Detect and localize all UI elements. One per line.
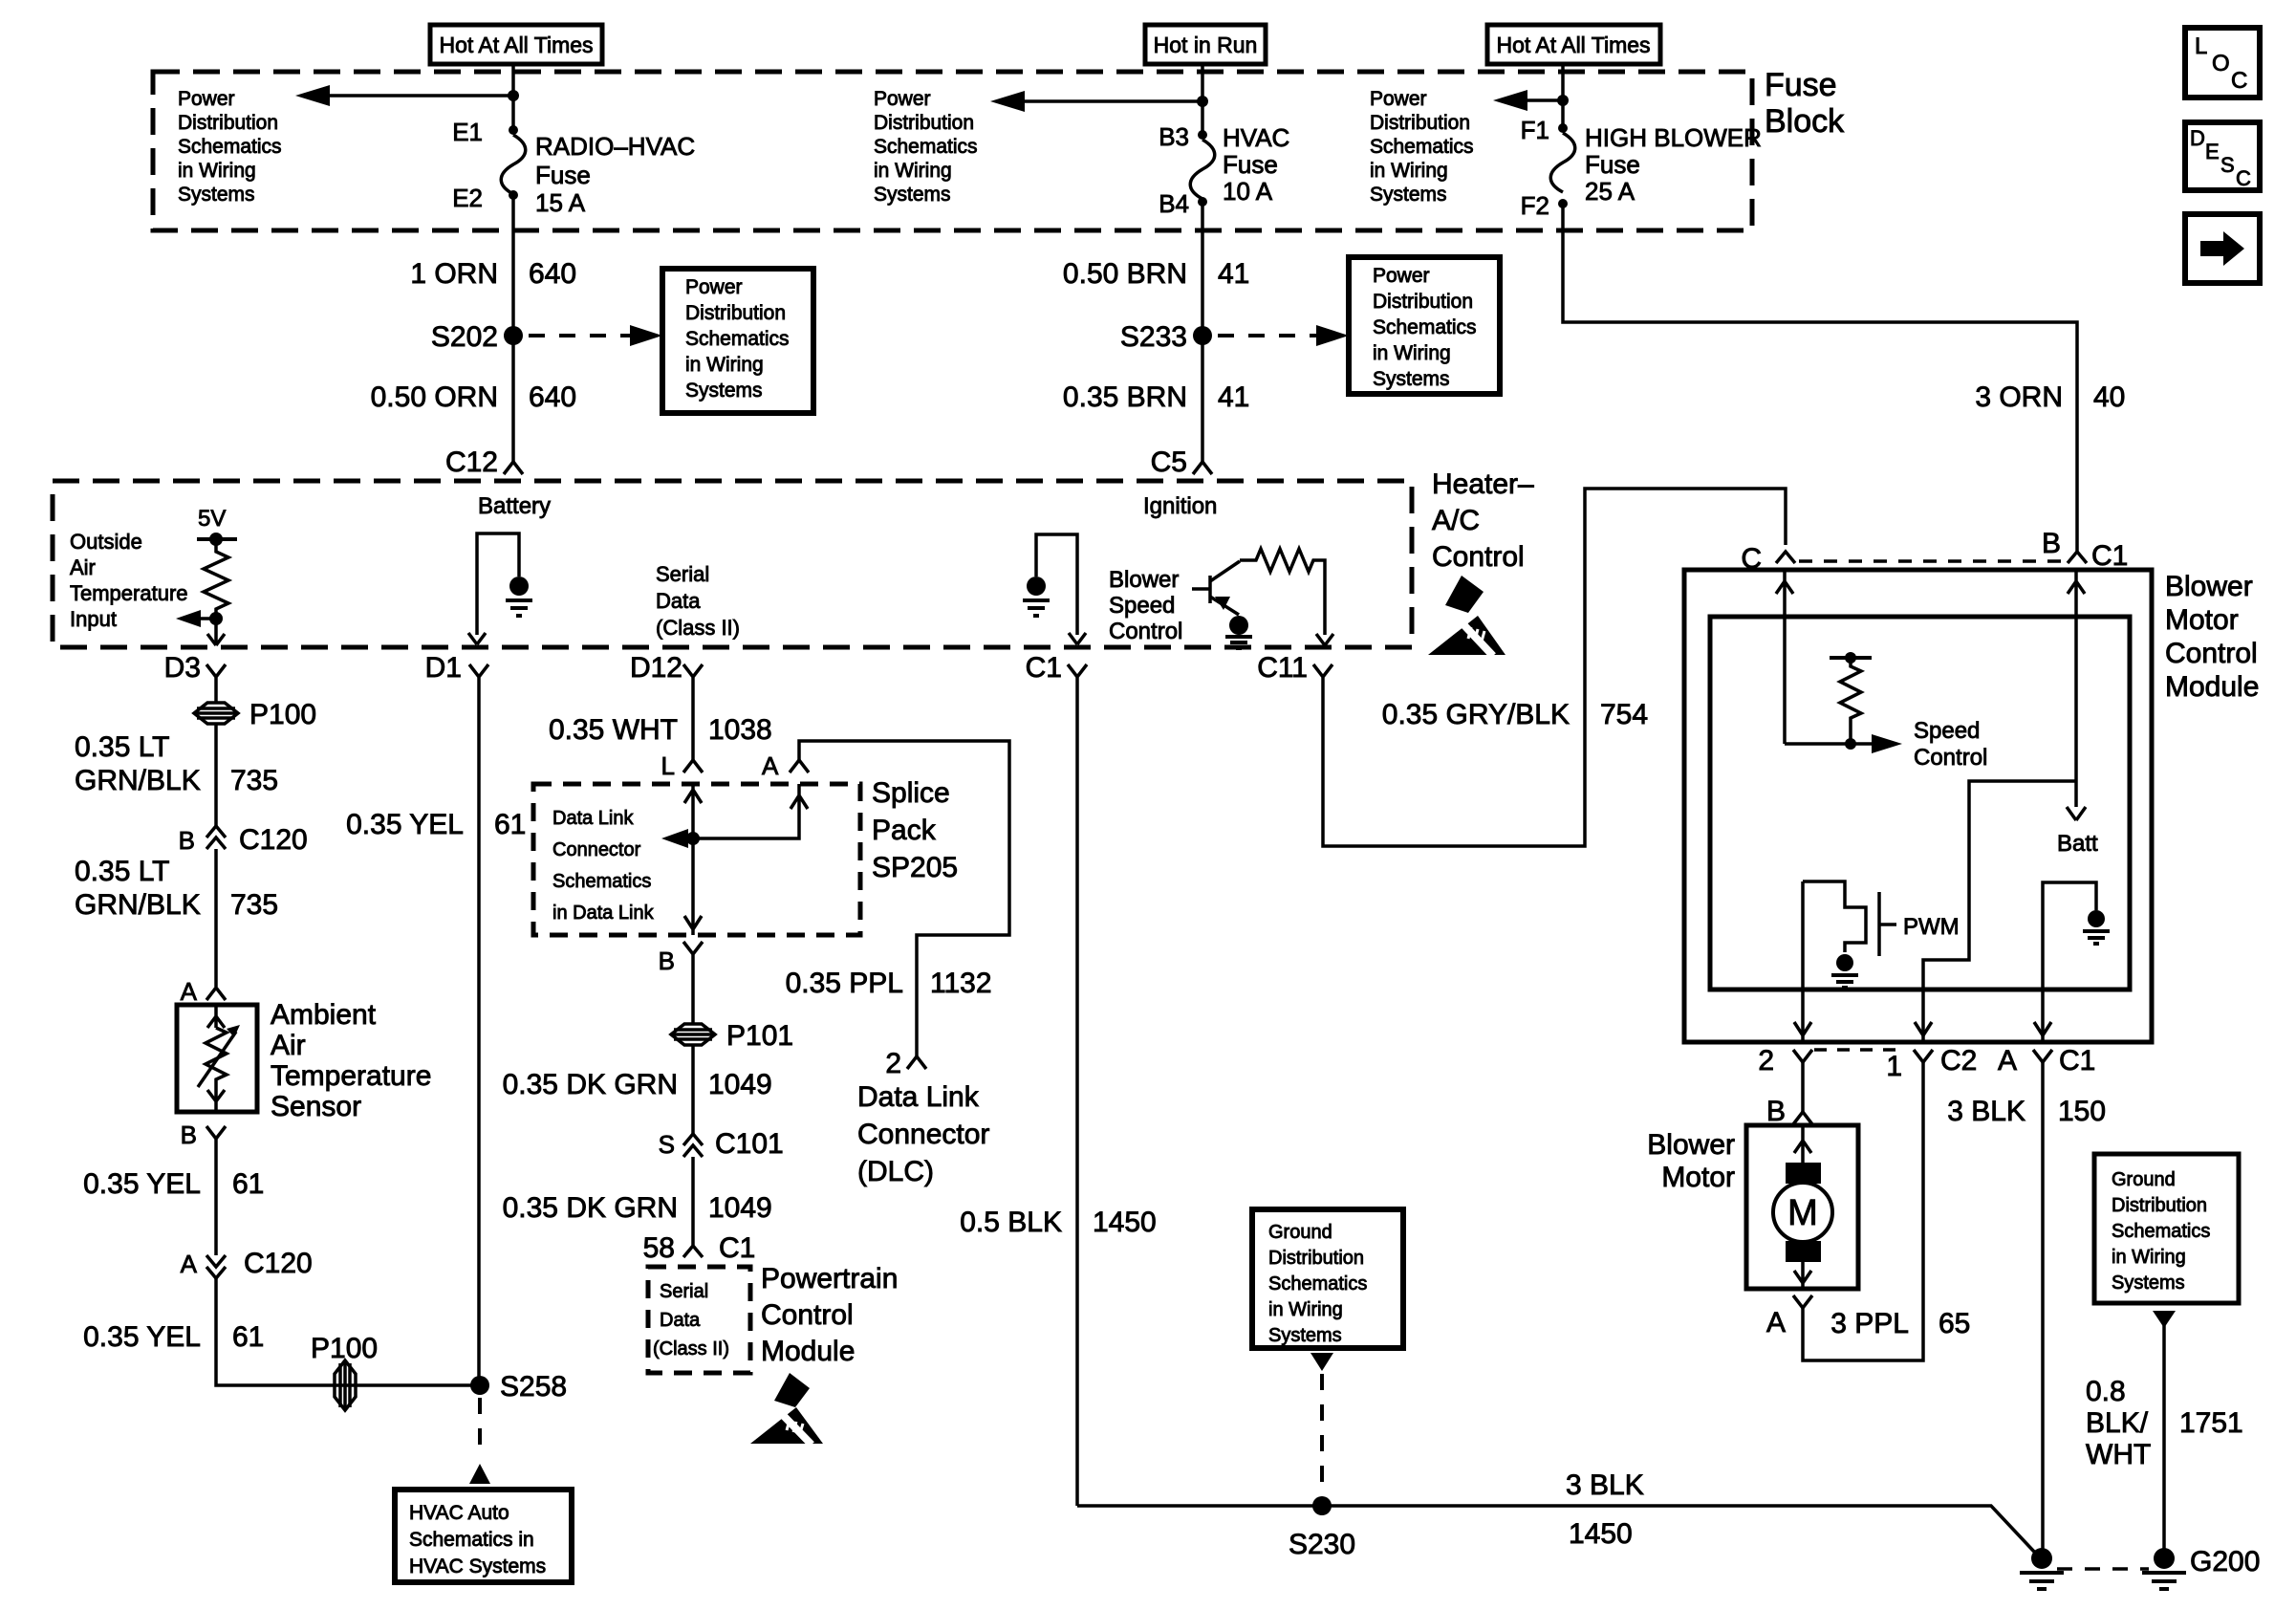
pcm serial data dashed box — [648, 1267, 750, 1373]
svg-text:61: 61 — [232, 1321, 264, 1353]
svg-text:Pack: Pack — [872, 815, 937, 846]
svg-text:Distribution: Distribution — [1373, 291, 1473, 313]
svg-text:in Wiring: in Wiring — [874, 160, 952, 182]
svg-text:Serial: Serial — [660, 1281, 708, 1302]
svg-text:Schematics: Schematics — [685, 328, 790, 350]
svg-text:Fuse: Fuse — [1765, 67, 1837, 103]
svg-text:M: M — [1787, 1193, 1818, 1233]
grommet P101 — [671, 1020, 793, 1052]
svg-text:B: B — [181, 1120, 197, 1149]
ground (transistor emitter) — [1229, 616, 1248, 635]
svg-text:0.35 LT: 0.35 LT — [75, 856, 170, 887]
fuse HIGH BLOWER 25A — [1550, 133, 1575, 192]
note box power distribution (S202) — [662, 269, 813, 413]
svg-text:754: 754 — [1600, 699, 1648, 730]
svg-text:Air: Air — [70, 555, 96, 579]
svg-text:B: B — [179, 826, 195, 855]
splice S202 — [504, 326, 523, 345]
svg-text:Power: Power — [1370, 88, 1427, 110]
svg-text:B: B — [2042, 528, 2061, 559]
svg-text:Blower: Blower — [1109, 567, 1179, 593]
wire pin A line with internal ground — [2043, 882, 2096, 1042]
note box ground distribution (S230) — [1252, 1209, 1403, 1348]
label box Hot At All Times (right) — [1487, 25, 1660, 64]
svg-text:C1: C1 — [1026, 652, 1062, 684]
svg-text:Connector: Connector — [857, 1119, 989, 1150]
svg-text:640: 640 — [529, 381, 576, 413]
svg-text:Fuse: Fuse — [1585, 150, 1640, 179]
svg-text:Power: Power — [1373, 265, 1430, 287]
arrow temp input (left) — [196, 617, 216, 620]
svg-text:41: 41 — [1218, 381, 1249, 413]
fuse HIGH BLOWER terminal F1 — [1558, 123, 1568, 133]
svg-text:Data Link: Data Link — [857, 1081, 980, 1113]
fuse RADIO-HVAC 15A — [501, 135, 526, 194]
svg-text:SP205: SP205 — [872, 852, 958, 883]
svg-text:25 A: 25 A — [1585, 177, 1635, 206]
svg-text:in Wiring: in Wiring — [1268, 1299, 1343, 1320]
svg-text:(Class II): (Class II) — [656, 616, 740, 640]
svg-text:735: 735 — [230, 765, 278, 796]
svg-text:Schematics: Schematics — [1268, 1273, 1367, 1295]
svg-text:B: B — [1766, 1096, 1786, 1127]
svg-text:Schematics: Schematics — [1373, 316, 1477, 338]
svg-text:B3: B3 — [1159, 122, 1189, 151]
arrow speed control — [1785, 742, 1877, 746]
svg-text:A: A — [181, 1250, 198, 1278]
svg-text:1450: 1450 — [1093, 1207, 1157, 1238]
svg-text:0.8: 0.8 — [2086, 1376, 2126, 1407]
wire F2 down and right to module B C1 — [1563, 204, 2077, 552]
5v supply bar — [197, 537, 237, 541]
svg-text:Schematics: Schematics — [552, 871, 651, 892]
wire pin 2 to blower motor B — [1801, 1062, 1805, 1112]
transistor blower speed control — [1192, 561, 1240, 615]
ground (ignition internal) — [1027, 577, 1046, 596]
svg-text:C120: C120 — [239, 824, 308, 856]
svg-text:2: 2 — [885, 1048, 901, 1079]
ground G200 (right) — [2154, 1548, 2175, 1569]
svg-text:Motor: Motor — [2165, 604, 2239, 636]
svg-text:E: E — [2205, 140, 2220, 163]
svg-text:0.35 DK GRN: 0.35 DK GRN — [503, 1192, 678, 1224]
wire pin A up and over to DLC — [799, 741, 1009, 1056]
svg-text:0.50 BRN: 0.50 BRN — [1063, 258, 1187, 290]
svg-text:Control: Control — [1914, 745, 1987, 771]
svg-text:HVAC Systems: HVAC Systems — [409, 1556, 546, 1577]
svg-text:Temperature: Temperature — [271, 1060, 431, 1092]
svg-text:Distribution: Distribution — [2112, 1195, 2207, 1216]
svg-text:0.35 GRY/BLK: 0.35 GRY/BLK — [1382, 699, 1570, 730]
svg-text:F2: F2 — [1521, 191, 1549, 220]
svg-text:Fuse: Fuse — [535, 161, 591, 189]
fuse RADIO-HVAC terminal E2 — [509, 190, 518, 200]
svg-text:Blower: Blower — [1647, 1129, 1735, 1161]
svg-text:Distribution: Distribution — [874, 112, 974, 134]
wire L through splice pack — [684, 784, 702, 935]
grommet P100 (horizontal wire) — [311, 1333, 378, 1410]
svg-text:Air: Air — [271, 1030, 306, 1061]
svg-text:A: A — [181, 977, 198, 1006]
svg-text:F1: F1 — [1521, 116, 1549, 144]
svg-text:RADIO–HVAC: RADIO–HVAC — [535, 132, 695, 161]
svg-text:1751: 1751 — [2179, 1407, 2243, 1439]
svg-text:1: 1 — [1886, 1051, 1902, 1082]
svg-text:D12: D12 — [630, 652, 682, 684]
svg-text:Powertrain: Powertrain — [761, 1263, 898, 1295]
svg-text:G200: G200 — [2190, 1546, 2260, 1577]
svg-text:Batt: Batt — [2057, 831, 2098, 857]
svg-text:C: C — [2231, 68, 2247, 94]
svg-text:in Wiring: in Wiring — [2112, 1247, 2186, 1268]
svg-text:A/C: A/C — [1432, 505, 1480, 536]
svg-text:Systems: Systems — [1373, 368, 1450, 390]
svg-text:Ground: Ground — [2112, 1169, 2176, 1190]
svg-text:C12: C12 — [445, 446, 498, 478]
splice S230 — [1312, 1496, 1332, 1515]
fuse HIGH BLOWER terminal F2 — [1558, 199, 1568, 208]
svg-text:C1: C1 — [719, 1232, 755, 1264]
svg-text:(Class II): (Class II) — [653, 1338, 729, 1360]
svg-text:61: 61 — [232, 1168, 264, 1200]
icon box right-arrow — [2185, 214, 2260, 283]
svg-text:1132: 1132 — [930, 968, 992, 999]
svg-text:C1: C1 — [2059, 1045, 2095, 1077]
svg-text:Outside: Outside — [70, 530, 142, 554]
svg-text:E1: E1 — [452, 118, 483, 146]
dashed arrow box to S230 — [1310, 1353, 1333, 1371]
ground G200 (left) — [2031, 1548, 2052, 1569]
svg-text:Module: Module — [761, 1336, 855, 1367]
svg-text:Hot At All Times: Hot At All Times — [439, 33, 593, 57]
ground (battery internal) — [509, 577, 529, 596]
svg-text:Systems: Systems — [2112, 1273, 2185, 1294]
svg-text:D1: D1 — [425, 652, 462, 684]
wire from Hot in Run into fuse block — [1201, 64, 1204, 135]
svg-text:Connector: Connector — [552, 839, 641, 860]
svg-text:in Wiring: in Wiring — [1373, 342, 1451, 364]
svg-text:Hot in Run: Hot in Run — [1154, 33, 1258, 57]
svg-text:Systems: Systems — [874, 184, 951, 206]
svg-text:Ignition: Ignition — [1143, 493, 1217, 519]
svg-text:1049: 1049 — [708, 1192, 772, 1224]
svg-text:Schematics: Schematics — [2112, 1221, 2210, 1242]
svg-text:0.35 WHT: 0.35 WHT — [549, 714, 678, 746]
wire motor A to module pin 1 — [1803, 1062, 1923, 1360]
svg-text:S230: S230 — [1289, 1529, 1355, 1560]
svg-text:Ground: Ground — [1268, 1222, 1332, 1243]
wire C101 to PCM — [691, 1157, 695, 1243]
fuse HVAC terminal B3 — [1198, 130, 1207, 140]
svg-text:S: S — [659, 1130, 675, 1159]
svg-text:in Wiring: in Wiring — [178, 160, 256, 182]
wire arrow to power distribution (right) — [1513, 98, 1563, 102]
svg-text:2: 2 — [1758, 1045, 1774, 1077]
svg-text:3 PPL: 3 PPL — [1830, 1308, 1909, 1339]
note box hvac auto schematics — [395, 1490, 572, 1582]
svg-text:0.35 BRN: 0.35 BRN — [1063, 381, 1187, 413]
svg-text:HVAC: HVAC — [1223, 123, 1289, 152]
svg-text:150: 150 — [2058, 1096, 2106, 1127]
svg-text:0.35 YEL: 0.35 YEL — [83, 1168, 201, 1200]
svg-text:B: B — [659, 946, 675, 975]
wire arrow to power distribution (middle) — [1010, 99, 1202, 103]
svg-text:0.35 LT: 0.35 LT — [75, 731, 170, 763]
dashed arrow S233 to note box — [1218, 334, 1325, 337]
svg-text:Power: Power — [685, 276, 743, 298]
svg-text:65: 65 — [1939, 1308, 1970, 1339]
svg-text:Data: Data — [656, 589, 701, 613]
wire ground run S230 — [1077, 1506, 2035, 1553]
note box power distribution (S233) — [1349, 257, 1500, 394]
svg-text:PWM: PWM — [1903, 914, 1960, 940]
svg-text:L: L — [661, 751, 675, 780]
wire B4 down to C5 — [1201, 202, 1204, 462]
junction on hvac feed — [1197, 96, 1208, 107]
label box Hot At All Times (left) — [430, 25, 602, 64]
svg-text:S: S — [2220, 153, 2235, 177]
svg-text:Block: Block — [1765, 103, 1845, 140]
blower motor control module outer box — [1684, 570, 2152, 1042]
svg-text:Data: Data — [660, 1310, 701, 1331]
fuse HVAC terminal B4 — [1198, 197, 1207, 207]
svg-text:(DLC): (DLC) — [857, 1156, 934, 1187]
svg-text:Schematics: Schematics — [874, 136, 978, 158]
svg-text:Systems: Systems — [1268, 1325, 1342, 1346]
wire B pin into module (Batt) — [2067, 570, 2086, 820]
motor symbol — [1773, 1125, 1832, 1289]
svg-text:GRN/BLK: GRN/BLK — [75, 765, 201, 796]
note box ground distribution (right) — [2094, 1154, 2239, 1303]
blower motor control module inner box — [1710, 617, 2130, 990]
wire A into splice pack junction — [681, 784, 808, 838]
svg-text:WHT: WHT — [2086, 1439, 2151, 1470]
svg-text:D: D — [2190, 126, 2205, 150]
svg-text:D3: D3 — [164, 652, 201, 684]
svg-text:10 A: 10 A — [1223, 177, 1273, 206]
svg-text:BLK/: BLK/ — [2086, 1407, 2149, 1439]
svg-text:15 A: 15 A — [535, 188, 586, 217]
svg-text:S202: S202 — [431, 321, 498, 353]
svg-text:Blower: Blower — [2165, 571, 2253, 602]
svg-text:640: 640 — [529, 258, 576, 290]
svg-text:61: 61 — [494, 809, 526, 840]
svg-text:Hot At All Times: Hot At All Times — [1496, 33, 1650, 57]
svg-text:Distribution: Distribution — [1370, 112, 1470, 134]
svg-text:Data Link: Data Link — [552, 808, 634, 829]
svg-text:P100: P100 — [249, 699, 316, 730]
internal battery link with ground — [477, 533, 519, 635]
splice S258 — [470, 1376, 489, 1395]
svg-text:C101: C101 — [715, 1128, 784, 1160]
svg-text:C2: C2 — [1940, 1045, 1977, 1077]
svg-text:L: L — [2195, 33, 2207, 59]
svg-text:1450: 1450 — [1569, 1518, 1633, 1550]
svg-text:41: 41 — [1218, 258, 1249, 290]
dashed connector line C to B — [1799, 559, 2063, 563]
svg-text:Schematics: Schematics — [1370, 136, 1474, 158]
wire P101 to C101 — [691, 1045, 695, 1134]
svg-text:Schematics: Schematics — [178, 136, 282, 158]
svg-text:C120: C120 — [244, 1248, 313, 1279]
svg-text:Power: Power — [178, 88, 235, 110]
svg-text:in Wiring: in Wiring — [685, 354, 764, 376]
svg-text:A: A — [1998, 1045, 2017, 1077]
fuse block dashed outline — [153, 72, 1752, 230]
svg-text:40: 40 — [2093, 381, 2125, 413]
junction on high blower feed — [1557, 95, 1569, 106]
mosfet pwm — [1803, 881, 1960, 956]
svg-text:Heater–: Heater– — [1432, 468, 1534, 500]
svg-text:S233: S233 — [1120, 321, 1187, 353]
svg-text:Serial: Serial — [656, 562, 709, 586]
svg-text:Control: Control — [1432, 541, 1525, 573]
svg-text:B4: B4 — [1159, 189, 1189, 218]
svg-text:0.35 PPL: 0.35 PPL — [786, 968, 903, 999]
resistor (outside air temp pull-up) — [204, 539, 228, 619]
svg-text:Control: Control — [2165, 638, 2258, 669]
icon box LOC — [2185, 28, 2260, 98]
svg-text:A: A — [1766, 1307, 1786, 1338]
svg-text:Distribution: Distribution — [178, 112, 278, 134]
label box Hot in Run — [1145, 25, 1266, 64]
wire E2 down to C12 — [511, 195, 515, 462]
svg-text:Temperature: Temperature — [70, 581, 188, 605]
svg-text:1 ORN: 1 ORN — [410, 258, 498, 290]
wire pin 2 line — [1794, 881, 1811, 1042]
blower motor box — [1746, 1125, 1858, 1289]
svg-text:Ambient: Ambient — [271, 999, 377, 1031]
svg-text:5V: 5V — [198, 506, 226, 532]
wire C120 to sensor — [214, 849, 218, 987]
svg-text:Speed: Speed — [1914, 718, 1980, 744]
svg-text:S258: S258 — [500, 1371, 567, 1403]
dashed link pin2 to pin1 — [1814, 1048, 1904, 1052]
ground (module internal right) — [2088, 910, 2105, 927]
svg-text:0.35 YEL: 0.35 YEL — [83, 1321, 201, 1353]
internal ignition link with ground — [1036, 534, 1077, 635]
svg-text:Distribution: Distribution — [685, 302, 786, 324]
svg-text:0.50 ORN: 0.50 ORN — [371, 381, 498, 413]
svg-text:3 BLK: 3 BLK — [1947, 1096, 2025, 1127]
dashed arrow S258 to hvac note box — [478, 1398, 482, 1459]
wire from Hot At All Times (right) into fuse block — [1561, 64, 1565, 128]
svg-text:Power: Power — [874, 88, 931, 110]
svg-text:E2: E2 — [452, 184, 483, 212]
svg-text:Systems: Systems — [178, 184, 255, 206]
svg-text:P101: P101 — [726, 1020, 793, 1052]
ambient air temperature sensor — [177, 1005, 257, 1112]
esd symbol (heater) — [1428, 576, 1505, 656]
svg-text:C11: C11 — [1257, 652, 1308, 684]
svg-text:GRN/BLK: GRN/BLK — [75, 889, 201, 921]
svg-text:3 BLK: 3 BLK — [1566, 1469, 1644, 1501]
svg-text:1038: 1038 — [708, 714, 772, 746]
svg-text:HVAC Auto: HVAC Auto — [409, 1502, 509, 1524]
svg-text:Systems: Systems — [685, 380, 763, 402]
splice S233 — [1193, 326, 1212, 345]
svg-text:Systems: Systems — [1370, 184, 1447, 206]
arrow box to G200 wire — [2153, 1311, 2176, 1328]
wire from Hot At All Times (left) into fuse block — [511, 64, 515, 130]
ground (mosfet source) — [1836, 954, 1853, 971]
wire B branch to pwm source — [1923, 781, 2076, 1042]
fuse RADIO-HVAC terminal E1 — [509, 125, 518, 135]
svg-text:58: 58 — [643, 1232, 675, 1264]
svg-text:0.5 BLK: 0.5 BLK — [960, 1207, 1062, 1238]
svg-text:in Data Link: in Data Link — [552, 903, 655, 924]
resistor (speed control collector) — [1240, 549, 1325, 635]
wire arrow to power distribution (left) — [315, 94, 513, 98]
icon box DESC — [2185, 122, 2260, 190]
esd symbol (pcm) — [750, 1373, 823, 1445]
wire C120 A down to corner — [216, 1278, 480, 1385]
grommet P100 (D3 wire) — [194, 699, 316, 730]
svg-text:0.35 DK GRN: 0.35 DK GRN — [503, 1069, 678, 1100]
arrow down to C11 — [1316, 634, 1333, 645]
svg-text:HIGH BLOWER: HIGH BLOWER — [1585, 123, 1762, 152]
svg-text:735: 735 — [230, 889, 278, 921]
splice pack SP205 dashed outline — [533, 784, 860, 935]
svg-text:Schematics in: Schematics in — [409, 1529, 534, 1551]
svg-text:Sensor: Sensor — [271, 1091, 361, 1122]
svg-text:in Wiring: in Wiring — [1370, 160, 1448, 182]
svg-text:Speed: Speed — [1109, 593, 1175, 619]
svg-text:C: C — [2236, 166, 2251, 190]
junction (temp input) — [209, 612, 223, 625]
svg-text:O: O — [2212, 51, 2230, 76]
svg-text:Motor: Motor — [1661, 1162, 1735, 1193]
wire C pin into module — [1776, 570, 1793, 744]
svg-text:C5: C5 — [1151, 446, 1187, 478]
wire P100 to C120 — [214, 724, 218, 826]
wire module pin A down to ground — [2041, 1062, 2045, 1551]
dashed link between grounds — [2057, 1567, 2149, 1571]
svg-text:Fuse: Fuse — [1223, 150, 1278, 179]
dashed arrow S202 to note box — [529, 334, 639, 337]
heater a/c control dashed outline — [53, 481, 1412, 647]
svg-text:Distribution: Distribution — [1268, 1248, 1364, 1269]
junction on radio-hvac feed — [508, 90, 519, 101]
arrow pin 1 exit — [1915, 1022, 1932, 1035]
svg-text:1049: 1049 — [708, 1069, 772, 1100]
svg-text:Battery: Battery — [478, 493, 551, 519]
svg-text:0.35 YEL: 0.35 YEL — [346, 809, 464, 840]
fuse HVAC 10A — [1190, 140, 1215, 199]
svg-text:A: A — [762, 751, 779, 780]
svg-text:Control: Control — [1109, 619, 1182, 644]
speed control resistor — [1830, 652, 1872, 750]
svg-text:Control: Control — [761, 1299, 854, 1331]
svg-text:Input: Input — [70, 607, 117, 631]
svg-text:Module: Module — [2165, 671, 2259, 703]
svg-text:Splice: Splice — [872, 777, 950, 809]
svg-text:C1: C1 — [2091, 540, 2128, 572]
svg-text:3 ORN: 3 ORN — [1975, 381, 2063, 413]
arrow down to D3 — [207, 619, 225, 645]
